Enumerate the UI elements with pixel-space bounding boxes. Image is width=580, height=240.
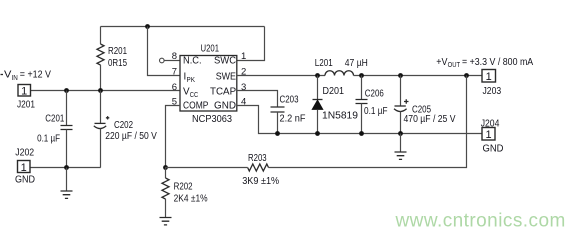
svg-text:= +3.3 V / 800 mA: = +3.3 V / 800 mA [462, 57, 534, 68]
svg-text:= +12 V: = +12 V [20, 70, 52, 81]
svg-text:R201: R201 [108, 46, 127, 57]
svg-text:C203: C203 [280, 95, 299, 106]
svg-text:0.1 µF: 0.1 µF [37, 134, 60, 145]
svg-text:3K9 ±1%: 3K9 ±1% [242, 176, 279, 187]
svg-text:+V: +V [436, 57, 448, 68]
svg-text:C201: C201 [45, 114, 64, 125]
resistor R203 [248, 164, 269, 171]
svg-text:220 µF / 50 V: 220 µF / 50 V [105, 131, 157, 142]
svg-text:COMP: COMP [183, 101, 209, 112]
svg-text:www.cntronics.com: www.cntronics.com [395, 211, 566, 232]
node C201 ground junction [64, 165, 69, 170]
svg-text:GND: GND [483, 143, 504, 154]
svg-text:C206: C206 [365, 89, 384, 100]
svg-text:47 µH: 47 µH [345, 58, 368, 69]
svg-text:J201: J201 [17, 100, 35, 111]
ground symbol output [400, 134, 402, 152]
svg-text:1: 1 [21, 86, 27, 98]
svg-text:GND: GND [214, 101, 236, 112]
node VIN label [1, 74, 4, 76]
svg-text:C202: C202 [114, 120, 133, 131]
svg-text:1: 1 [241, 51, 246, 62]
diode D201 1N5819 [317, 76, 319, 100]
wire TCAP stub [237, 91, 278, 107]
wire top rail [101, 26, 265, 28]
svg-text:2K4 ±1%: 2K4 ±1% [174, 194, 208, 205]
capacitor C203 [271, 107, 285, 112]
svg-text:TCAP: TCAP [210, 87, 237, 98]
node C206 junction [359, 73, 364, 78]
wire feedback drop [269, 76, 467, 168]
svg-text:3: 3 [241, 82, 246, 93]
wire VOUT rail [354, 75, 483, 77]
svg-text:J202: J202 [15, 147, 34, 158]
connector J204 [482, 128, 495, 141]
svg-text:1N5819: 1N5819 [322, 110, 358, 121]
svg-text:1: 1 [485, 129, 491, 141]
inductor L201 [325, 71, 354, 76]
svg-text:0R15: 0R15 [108, 58, 127, 69]
wire pin8 stub [164, 60, 180, 62]
svg-text:NCP3063: NCP3063 [192, 114, 233, 125]
svg-text:R202: R202 [174, 181, 193, 192]
svg-text:CC: CC [190, 92, 199, 99]
svg-text:J203: J203 [483, 86, 502, 97]
capacitor C201 [66, 91, 68, 126]
svg-text:U201: U201 [201, 44, 220, 55]
connector J202 [18, 161, 31, 173]
svg-text:L201: L201 [315, 58, 333, 69]
resistor R202 [165, 168, 167, 179]
op-amp U201 IC box [180, 56, 237, 112]
svg-text:1: 1 [21, 162, 27, 174]
node C201 junction [64, 88, 69, 93]
svg-text:R203: R203 [248, 153, 267, 164]
svg-text:PK: PK [187, 77, 196, 84]
svg-text:IN: IN [12, 75, 18, 82]
wire +12V input rail [31, 90, 181, 92]
svg-text:D201: D201 [323, 86, 345, 97]
svg-text:6: 6 [172, 82, 177, 93]
svg-text:SWC: SWC [214, 56, 236, 67]
node R201/C202 junction [98, 88, 103, 93]
svg-text:GND: GND [15, 175, 35, 186]
wire pin1 riser [237, 27, 265, 61]
node N.C. open circle pin 8 [160, 58, 165, 63]
wire J202 ground rail [31, 167, 101, 169]
node VOUT feedback junction [464, 73, 469, 78]
node C203 ground junction [275, 131, 280, 136]
connector J203 [482, 70, 496, 83]
svg-text:OUT: OUT [448, 62, 461, 69]
wire R201 top vertical [100, 27, 102, 45]
wire SWE rail [237, 75, 325, 77]
svg-text:1: 1 [486, 71, 492, 83]
svg-text:2.2 nF: 2.2 nF [280, 114, 306, 125]
wire GND pin4 to ground rail [237, 106, 482, 134]
svg-text:7: 7 [172, 67, 177, 78]
connector J201 [18, 85, 31, 97]
node feedback junction [163, 165, 168, 170]
svg-text:470 µF / 25 V: 470 µF / 25 V [404, 114, 456, 125]
ground symbol R202 [165, 199, 167, 218]
svg-text:8: 8 [172, 51, 177, 62]
wire pin7 drop [148, 27, 181, 76]
svg-text:J204: J204 [481, 118, 500, 129]
svg-text:N.C.: N.C. [183, 56, 202, 67]
capacitor C202 polarized [100, 91, 102, 124]
ground symbol input [66, 168, 68, 191]
capacitor C206 [361, 76, 363, 100]
node junction top rail / pin7 branch [145, 24, 150, 29]
node D201 top junction [315, 73, 320, 78]
svg-text:SWE: SWE [216, 72, 237, 83]
capacitor C205 polarized [400, 76, 402, 106]
svg-text:0.1 µF: 0.1 µF [364, 106, 388, 117]
wire COMP pin5 stub and drop [166, 106, 181, 168]
node C205 junction [398, 73, 403, 78]
resistor R201 [97, 44, 104, 65]
